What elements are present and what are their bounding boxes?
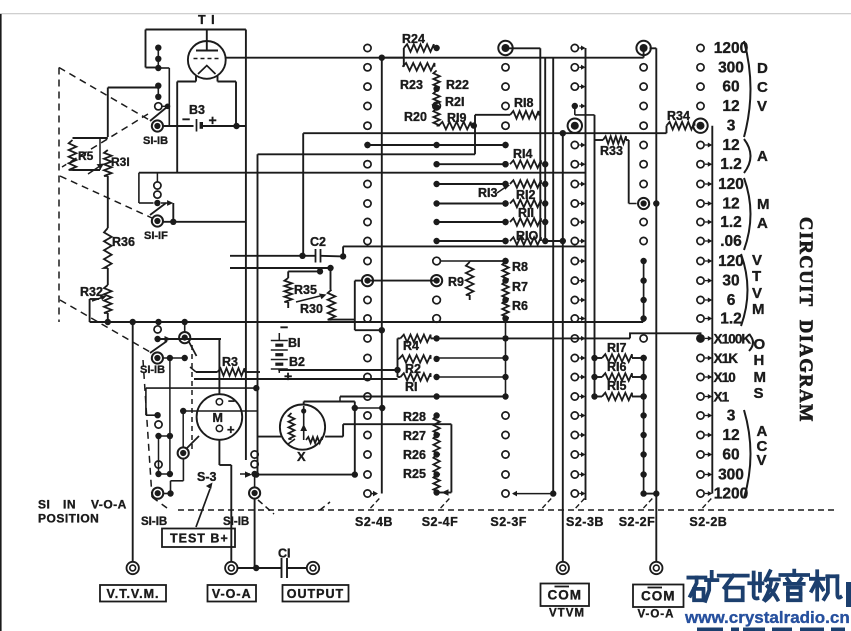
svg-text:R6: R6: [512, 299, 528, 313]
svg-text:BI: BI: [288, 336, 301, 350]
svg-text:R3: R3: [222, 355, 238, 369]
svg-text:S-3: S-3: [197, 470, 217, 484]
svg-text:12: 12: [722, 196, 739, 213]
svg-text:1.2: 1.2: [720, 156, 742, 173]
svg-text:V-O-A: V-O-A: [212, 587, 252, 601]
svg-text:C: C: [757, 79, 768, 96]
svg-text:R26: R26: [403, 448, 426, 462]
svg-text:V: V: [752, 252, 762, 269]
svg-text:6: 6: [727, 292, 736, 309]
svg-text:R32: R32: [80, 285, 103, 299]
svg-text:3: 3: [727, 118, 736, 135]
svg-text:M: M: [752, 301, 765, 318]
svg-text:www.crystalradio.cn: www.crystalradio.cn: [684, 608, 850, 627]
svg-text:COM: COM: [548, 587, 583, 602]
svg-text:300: 300: [718, 467, 744, 484]
svg-text:R22: R22: [446, 78, 469, 92]
svg-text:OUTPUT: OUTPUT: [287, 587, 344, 601]
svg-text:S2-2F: S2-2F: [619, 515, 656, 529]
svg-text:R8: R8: [512, 260, 528, 274]
svg-text:SI-IB: SI-IB: [223, 516, 249, 528]
svg-text:R28: R28: [403, 410, 426, 424]
svg-text:SI-IB: SI-IB: [141, 516, 167, 528]
svg-text:RI6: RI6: [607, 360, 627, 374]
svg-text:RI2: RI2: [516, 188, 536, 202]
svg-text:R2I: R2I: [445, 95, 464, 109]
svg-text:R20: R20: [404, 110, 427, 124]
svg-text:R30: R30: [300, 302, 323, 316]
svg-text:A: A: [757, 148, 768, 165]
svg-text:R27: R27: [403, 429, 426, 443]
svg-text:−: −: [280, 319, 288, 335]
svg-text:60: 60: [722, 79, 739, 96]
svg-text:M: M: [754, 369, 767, 386]
svg-text:V-O-A: V-O-A: [638, 609, 675, 621]
svg-text:TEST B+: TEST B+: [170, 532, 229, 546]
svg-text:V.T.V.M.: V.T.V.M.: [107, 587, 160, 601]
svg-text:M: M: [213, 411, 223, 425]
svg-text:S2-3B: S2-3B: [566, 515, 604, 529]
svg-text:SI: SI: [38, 498, 50, 512]
svg-text:S2-4B: S2-4B: [355, 515, 393, 529]
svg-text:−: −: [228, 394, 235, 408]
svg-text:−: −: [182, 111, 190, 127]
svg-text:X100K: X100K: [714, 331, 752, 346]
svg-text:H: H: [754, 352, 765, 369]
svg-text:V: V: [757, 452, 767, 469]
svg-text:X1K: X1K: [714, 351, 739, 366]
svg-text:12: 12: [722, 98, 739, 115]
svg-text:R23: R23: [400, 78, 423, 92]
svg-text:3: 3: [727, 408, 736, 425]
svg-text:60: 60: [722, 447, 739, 464]
svg-text:S: S: [754, 385, 764, 402]
svg-text:COM: COM: [641, 588, 676, 603]
svg-text:+: +: [284, 368, 292, 384]
svg-text:R36: R36: [112, 235, 135, 249]
svg-text:R5: R5: [78, 149, 94, 163]
svg-text:C2: C2: [310, 235, 326, 249]
svg-text:CI: CI: [278, 547, 291, 561]
svg-text:RI5: RI5: [607, 379, 627, 393]
svg-text:RI7: RI7: [607, 341, 627, 355]
svg-text:V-O-A: V-O-A: [91, 498, 127, 512]
svg-text:T I: T I: [198, 13, 216, 27]
svg-text:R34: R34: [667, 109, 690, 123]
svg-text:B3: B3: [189, 103, 205, 117]
svg-text:1200: 1200: [714, 40, 748, 57]
svg-text:+: +: [227, 422, 235, 437]
svg-text:RI8: RI8: [514, 96, 534, 110]
svg-text:R4: R4: [403, 339, 419, 353]
svg-text:VTVM: VTVM: [549, 608, 585, 620]
svg-text:X: X: [297, 449, 306, 464]
svg-text:R9: R9: [448, 275, 464, 289]
svg-text:SI-IF: SI-IF: [144, 230, 168, 242]
svg-text:RI3: RI3: [478, 186, 498, 200]
svg-text:M: M: [757, 196, 770, 213]
svg-text:V: V: [757, 98, 767, 115]
svg-text:R25: R25: [403, 467, 426, 481]
svg-text:S2-4F: S2-4F: [422, 515, 459, 529]
svg-text:12: 12: [722, 427, 739, 444]
svg-text:RI4: RI4: [513, 147, 533, 161]
svg-text:X10: X10: [714, 370, 736, 385]
svg-text:S2-3F: S2-3F: [490, 515, 527, 529]
svg-text:X1: X1: [714, 390, 730, 405]
svg-text:O: O: [754, 336, 766, 353]
svg-text:R3I: R3I: [111, 155, 130, 169]
svg-text:D: D: [757, 60, 768, 77]
svg-text:SI-IB: SI-IB: [143, 135, 168, 147]
svg-text:1200: 1200: [714, 486, 748, 503]
svg-text:R35: R35: [294, 283, 317, 297]
svg-text:V: V: [752, 285, 762, 302]
svg-text:120: 120: [718, 253, 744, 270]
svg-text:POSITION: POSITION: [38, 512, 99, 526]
svg-text:300: 300: [718, 59, 744, 76]
svg-text:1.2: 1.2: [720, 214, 742, 231]
svg-text:120: 120: [718, 176, 744, 193]
svg-text:30: 30: [722, 273, 739, 290]
svg-text:R33: R33: [600, 144, 623, 158]
svg-text:R7: R7: [512, 280, 528, 294]
svg-text:12: 12: [722, 137, 739, 154]
svg-text:A: A: [757, 215, 768, 232]
svg-text:SI-IB: SI-IB: [140, 364, 165, 376]
svg-text:IN: IN: [63, 498, 76, 512]
svg-text:T: T: [752, 268, 761, 285]
svg-text:B2: B2: [289, 355, 305, 369]
svg-text:CIRCUIT DIAGRAM: CIRCUIT DIAGRAM: [795, 217, 815, 423]
svg-text:S2-2B: S2-2B: [689, 515, 727, 529]
svg-text:1.2: 1.2: [720, 311, 742, 328]
svg-text:.06: .06: [720, 233, 742, 250]
